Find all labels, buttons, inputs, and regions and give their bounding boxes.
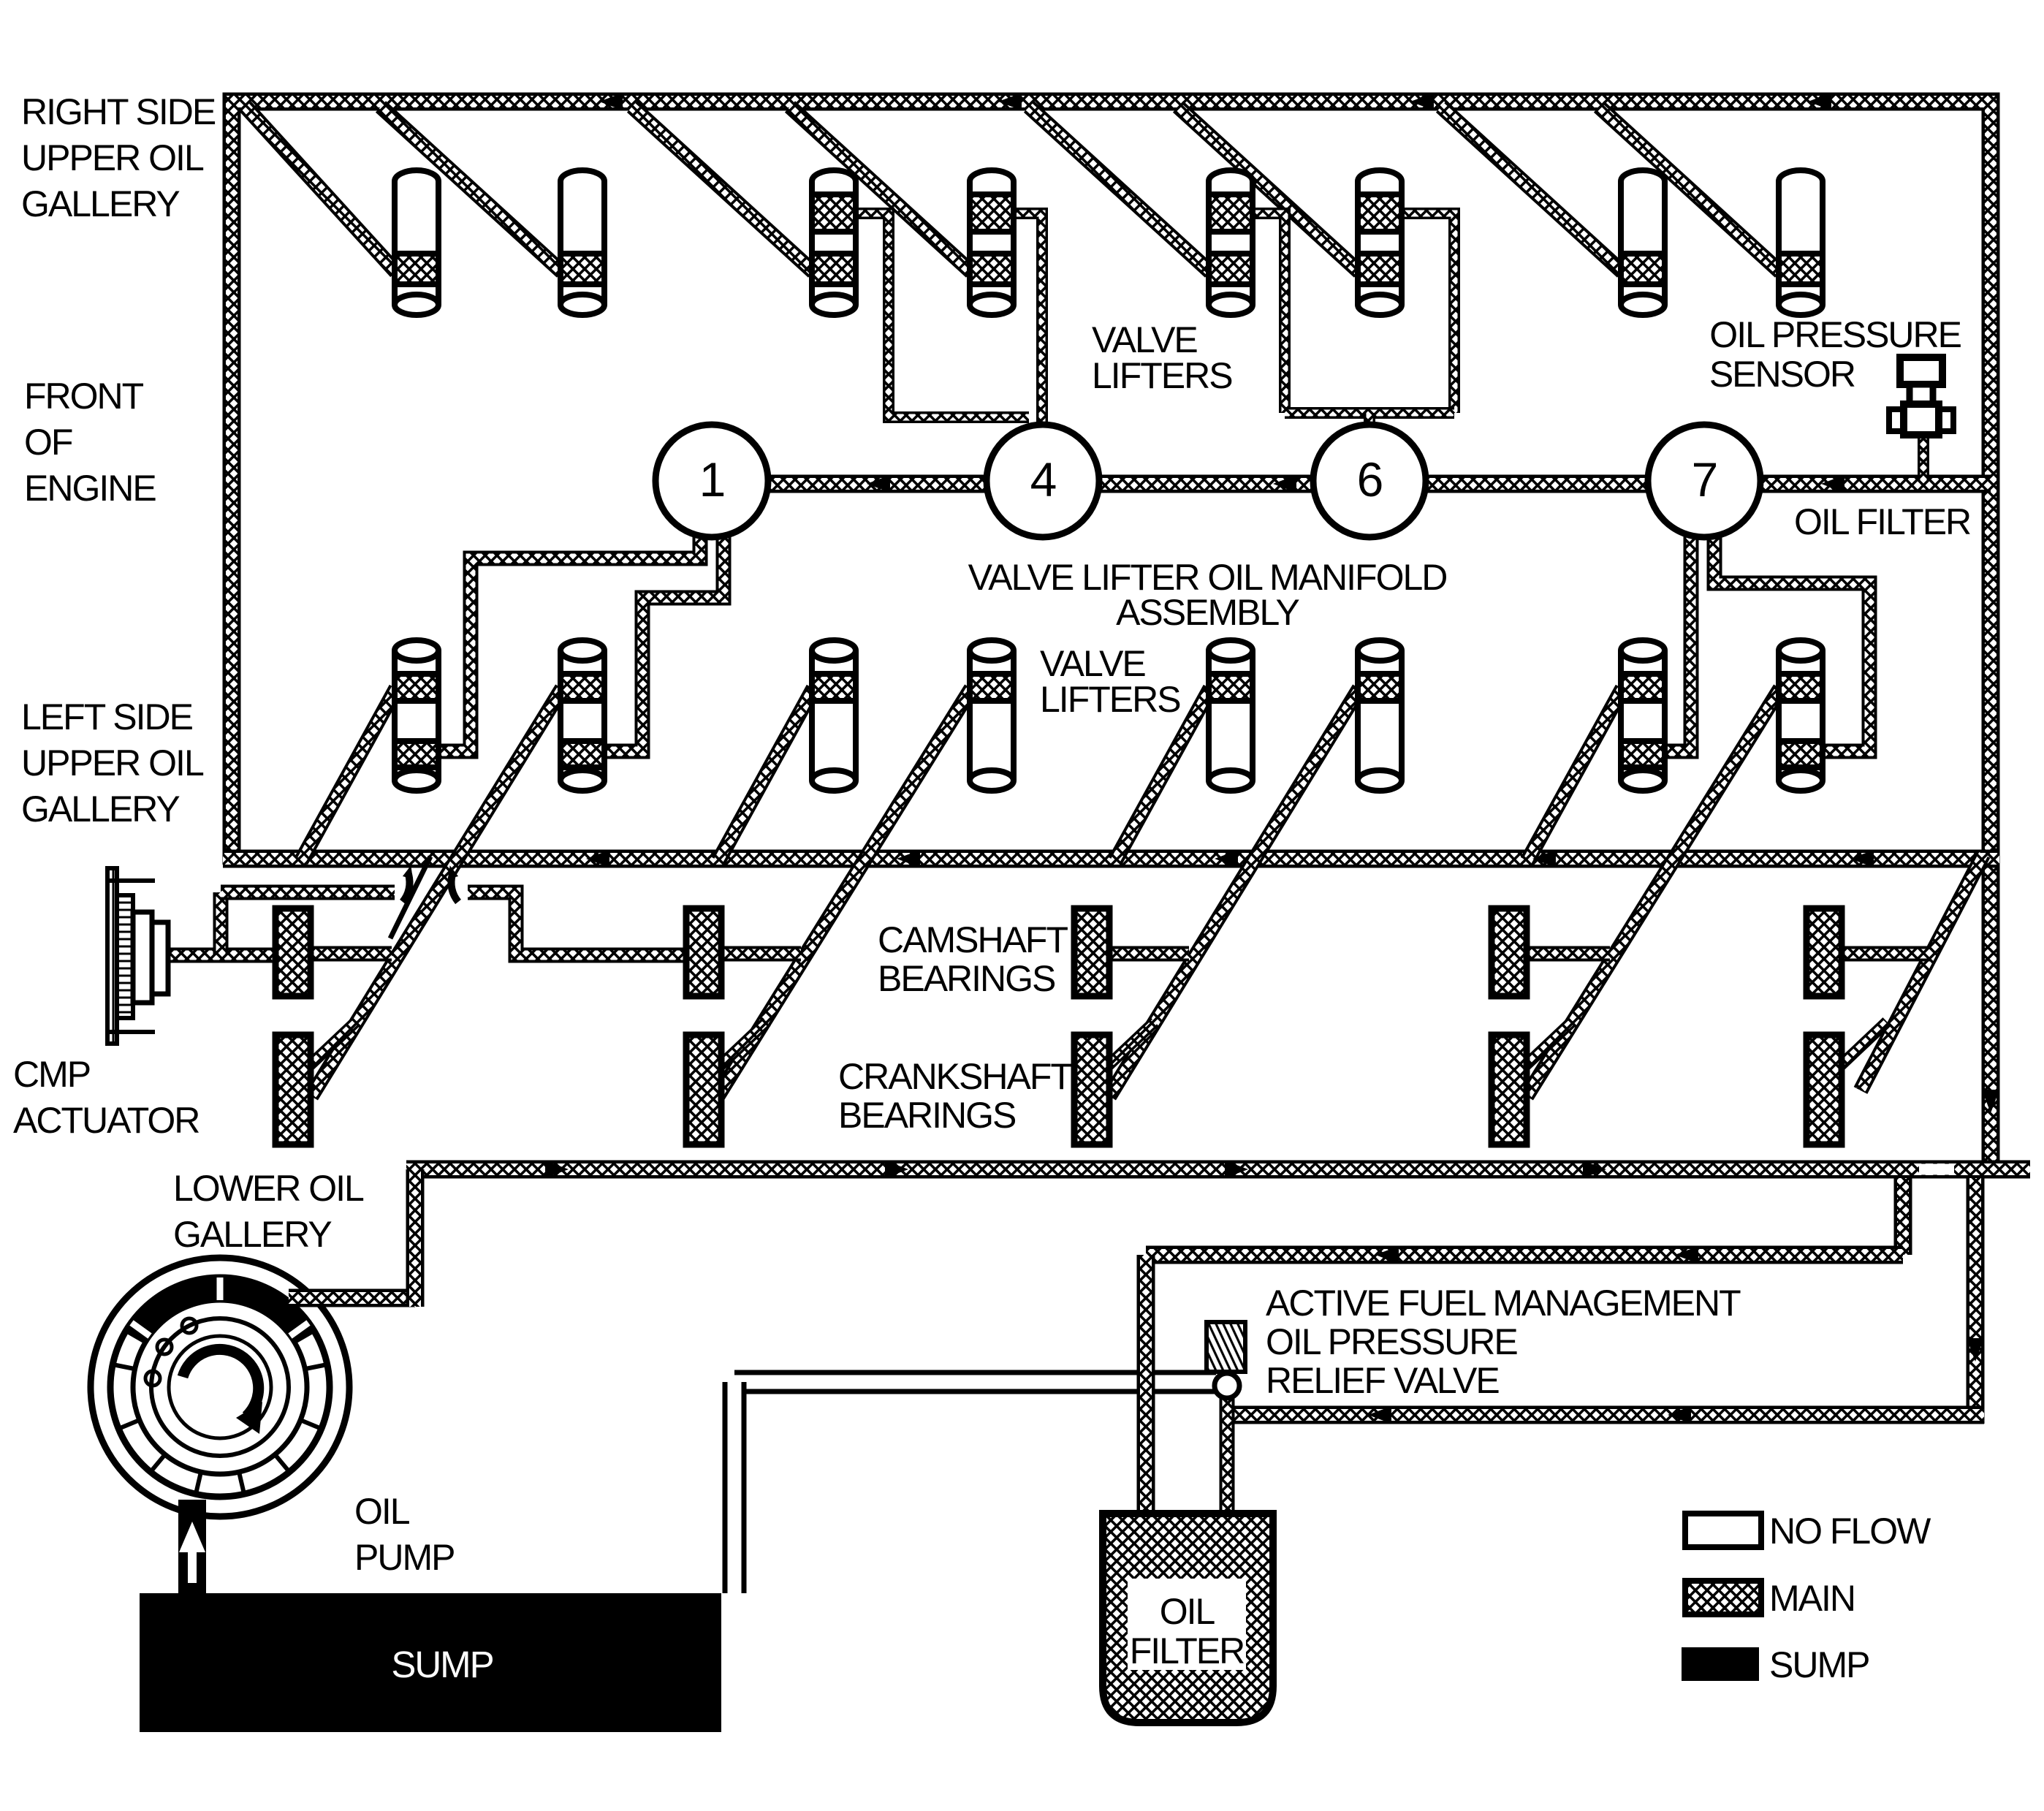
manifold port circle 1 (656, 425, 768, 537)
svg-text:CAMSHAFT: CAMSHAFT (878, 919, 1068, 960)
active fuel management oil pressure relief valve (1207, 1322, 1245, 1398)
legend no-flow swatch (1685, 1514, 1761, 1547)
svg-text:LEFT SIDE: LEFT SIDE (21, 696, 193, 737)
svg-text:PUMP: PUMP (354, 1537, 454, 1578)
no-flow drain drop to sump (723, 1382, 747, 1593)
flow arrow on box bottom gallery (1532, 850, 1556, 867)
oil pump pickup tube from sump (178, 1500, 206, 1595)
valve lifter B7 (1621, 640, 1665, 791)
oil pressure sensor (1889, 357, 1953, 435)
flow arrow on AFM top pipe (1375, 1246, 1399, 1264)
flow arrow on AFM bottom pipe (1368, 1406, 1391, 1424)
main diagonal from crankshaft bearing 2 to valve lifter B4 (718, 688, 971, 1096)
right branch pipe to camshaft bearing 2 (468, 892, 686, 955)
camshaft bearing 2 feed pipe (704, 946, 801, 962)
valve lifter T1 (395, 170, 438, 315)
flow arrow on lower gallery (1583, 1161, 1606, 1178)
valve lifter T2 (561, 170, 604, 315)
camshaft bearing 3 feed pipe (1092, 946, 1189, 962)
oil pressure sensor stem (1918, 433, 1929, 481)
AFM box bottom pipe (1227, 1406, 1984, 1424)
main diagonal from crankshaft bearing 1 to valve lifter B2 (311, 688, 562, 1096)
flow arrow on top gallery (1808, 93, 1831, 110)
valve lifter B8 (1779, 640, 1823, 791)
valve lifter T6 (1358, 170, 1402, 315)
svg-text:LOWER OIL: LOWER OIL (173, 1168, 364, 1209)
manifold port circle 6 (1313, 425, 1426, 537)
svg-text:OIL FILTER: OIL FILTER (1794, 501, 1970, 542)
flow arrow on AFM bottom pipe (1668, 1406, 1691, 1424)
lower oil gallery: pump outlet riser and horizontal run (406, 1161, 2030, 1179)
svg-text:4: 4 (1030, 452, 1056, 506)
valve lifter B3 (812, 640, 856, 791)
svg-text:6: 6 (1357, 452, 1383, 506)
camshaft bearing 4 (1492, 908, 1527, 996)
crankshaft bearing 3 (1074, 1035, 1109, 1144)
flow arrow on top gallery (998, 93, 1022, 110)
feed diagonal from right-side gallery to valve lifter T1 (246, 107, 396, 272)
sump (140, 1593, 721, 1732)
legend sump swatch (1682, 1647, 1759, 1681)
svg-text:OIL PRESSURE: OIL PRESSURE (1709, 314, 1961, 355)
flow arrow on manifold (1821, 475, 1844, 493)
flow arrow on top gallery (1410, 93, 1434, 110)
AFM box left vertical to oil filter (1137, 1255, 1155, 1520)
svg-text:NO FLOW: NO FLOW (1769, 1511, 1931, 1552)
svg-text:SUMP: SUMP (1769, 1644, 1869, 1685)
feed diagonal from right-side gallery to valve lifter T2 (381, 107, 562, 272)
svg-text:ACTUATOR: ACTUATOR (13, 1100, 199, 1141)
right vertical down to AFM box (1967, 1178, 1985, 1424)
svg-text:OIL: OIL (1160, 1591, 1215, 1632)
svg-text:1: 1 (699, 452, 725, 506)
svg-text:VALVE: VALVE (1092, 319, 1197, 360)
svg-text:RELIEF VALVE: RELIEF VALVE (1266, 1360, 1499, 1401)
arrow hook at right branch start (451, 874, 458, 902)
lifter T5 feed to manifold port 6 (1253, 213, 1285, 413)
camshaft bearing 1 (276, 908, 311, 996)
svg-text:GALLERY: GALLERY (21, 789, 180, 829)
feed diagonal from right-side gallery to valve lifter T4 (790, 107, 971, 272)
svg-text:OIL: OIL (354, 1491, 410, 1532)
svg-text:CMP: CMP (13, 1054, 90, 1095)
svg-text:UPPER OIL: UPPER OIL (21, 743, 204, 783)
feed diagonal from right-side gallery to valve lifter T5 (1029, 107, 1210, 272)
crankshaft bearing 3 outlet stub (1102, 1022, 1155, 1071)
feed diagonal from right-side gallery to valve lifter T6 (1178, 107, 1359, 272)
svg-text:GALLERY: GALLERY (21, 183, 180, 224)
feed diagonal from gallery to valve lifter B3 (718, 688, 813, 861)
svg-text:ASSEMBLY: ASSEMBLY (1116, 592, 1299, 633)
manifold port 1 branch to lifter B1 (437, 512, 700, 751)
riser from CMP line to branch pipe (213, 892, 229, 955)
svg-text:BEARINGS: BEARINGS (878, 958, 1055, 999)
valve lifter oil manifold pipe (712, 475, 1991, 493)
feed diagonal from gallery to valve lifter B7 (1527, 688, 1622, 861)
svg-text:CRANKSHAFT: CRANKSHAFT (838, 1056, 1072, 1097)
no-flow drain pipe from relief valve (734, 1370, 1216, 1394)
svg-text:LIFTERS: LIFTERS (1040, 679, 1180, 720)
CMP actuator (107, 868, 168, 1044)
oil pump (91, 1258, 349, 1516)
flow arrow on right border down (1982, 1090, 1999, 1113)
svg-text:ENGINE: ENGINE (24, 468, 156, 509)
valve lifter B6 (1358, 640, 1402, 791)
right/top/left upper oil gallery pipe frame (232, 102, 1991, 1177)
svg-text:FRONT: FRONT (24, 376, 144, 417)
no-flow white gap in lower gallery near right border (1919, 1164, 1954, 1175)
lifter T6 feed pipe down (1402, 213, 1454, 413)
manifold port 6 stub (1364, 413, 1375, 443)
svg-text:FILTER: FILTER (1130, 1630, 1245, 1671)
main diagonal from crankshaft bearing 3 to valve lifter B6 (1109, 688, 1359, 1096)
flow arrow on AFM top pipe (1675, 1246, 1698, 1264)
camshaft bearing 3 (1074, 908, 1109, 996)
AFM box top pipe (1146, 1246, 1903, 1264)
manifold port 7 branch to lifter B7 (1663, 512, 1691, 751)
feed diagonal from gallery to valve lifter B5 (1115, 688, 1210, 861)
valve lifter B2 (561, 640, 604, 791)
main diagonal from crankshaft bearing 5 to gallery corner (1861, 854, 1983, 1090)
svg-text:SENSOR: SENSOR (1709, 354, 1855, 395)
svg-text:ACTIVE FUEL MANAGEMENT: ACTIVE FUEL MANAGEMENT (1266, 1283, 1741, 1324)
manifold port 1 branch to lifter B2 (600, 512, 723, 751)
flow arrow on lower gallery (885, 1161, 908, 1178)
flow arrow on lower gallery (545, 1161, 569, 1178)
crankshaft bearing 2 (686, 1035, 721, 1144)
camshaft bearing 4 feed pipe (1509, 946, 1610, 962)
feed diagonal from right-side gallery to valve lifter T7 (1441, 107, 1622, 272)
valve lifter T8 (1779, 170, 1823, 315)
camshaft bearing 5 feed pipe (1824, 946, 1931, 962)
feed diagonal from right-side gallery to valve lifter T3 (632, 107, 813, 272)
flow arrow on box bottom gallery (1850, 850, 1874, 867)
svg-text:VALVE: VALVE (1040, 643, 1145, 684)
svg-text:SUMP: SUMP (391, 1644, 493, 1685)
lifter T3 feed to manifold port 4 (856, 213, 1029, 417)
valve lifter B1 (395, 640, 438, 791)
crankshaft bearing 5 (1806, 1035, 1842, 1144)
crankshaft bearing 1 (276, 1035, 311, 1144)
crankshaft bearing 4 (1492, 1035, 1527, 1144)
flow arrow on manifold (1273, 475, 1296, 493)
valve lifter T5 (1209, 170, 1253, 315)
camshaft bearing 1 feed pipe (293, 946, 392, 962)
thin feed line through branch junction (390, 857, 430, 938)
valve lifter B4 (970, 640, 1014, 791)
manifold port circle 7 (1648, 425, 1760, 537)
manifold port circle 4 (987, 425, 1099, 537)
feed diagonal from gallery to valve lifter B1 (301, 688, 396, 861)
lower oil gallery riser from pump (406, 1169, 425, 1307)
oil pump outlet pipe to lower gallery (289, 1289, 415, 1307)
crankshaft bearing 1 outlet stub (303, 1022, 356, 1071)
crankshaft bearing 4 outlet stub (1519, 1022, 1572, 1071)
valve lifter B5 (1209, 640, 1253, 791)
camshaft bearing 5 (1806, 908, 1842, 996)
svg-text:OF: OF (24, 422, 72, 463)
svg-text:LIFTERS: LIFTERS (1092, 355, 1232, 396)
box bottom gallery pipe (left side upper oil gallery) (223, 850, 1999, 868)
flow arrow on manifold (867, 475, 890, 493)
flow arrow on box bottom gallery (1215, 850, 1238, 867)
AFM feed riser from lower gallery (1894, 1178, 1912, 1255)
svg-text:MAIN: MAIN (1769, 1578, 1855, 1619)
flow arrow on box bottom gallery (586, 850, 609, 867)
arrow hook at left branch end (403, 874, 410, 902)
flow arrow on box bottom gallery (897, 850, 920, 867)
left branch pipe with arrow (221, 885, 395, 900)
feed diagonal from right-side gallery to valve lifter T8 (1599, 107, 1780, 272)
valve lifter T7 (1621, 170, 1665, 315)
camshaft bearing 1 feed from CMP actuator line (162, 948, 276, 963)
svg-text:RIGHT SIDE: RIGHT SIDE (21, 91, 216, 132)
valve lifter T4 (970, 170, 1014, 315)
valve lifter T3 (812, 170, 856, 315)
flow arrow on AFM right vertical (1967, 1338, 1984, 1362)
manifold port 6 collector pipe (1285, 407, 1454, 419)
oil filter canister (1103, 1514, 1273, 1723)
flow arrow on lower gallery (1225, 1161, 1248, 1178)
crankshaft bearing 2 outlet stub (714, 1022, 767, 1071)
manifold port 7 branch to lifter B8 (1714, 512, 1869, 751)
legend main swatch (1685, 1581, 1761, 1614)
relief valve outlet stem to oil filter (1220, 1393, 1235, 1520)
crankshaft bearing 5 outlet stub (1834, 1022, 1887, 1071)
camshaft bearing 2 (686, 908, 721, 996)
flow arrow on top gallery (599, 93, 623, 110)
svg-text:BEARINGS: BEARINGS (838, 1095, 1016, 1136)
lifter T4 feed to manifold port 4 (1014, 213, 1042, 443)
svg-text:7: 7 (1692, 452, 1717, 506)
main diagonal from crankshaft bearing 4 to valve lifter B8 (1527, 688, 1780, 1096)
svg-text:UPPER OIL: UPPER OIL (21, 137, 204, 178)
svg-text:OIL PRESSURE: OIL PRESSURE (1266, 1321, 1517, 1362)
svg-text:GALLERY: GALLERY (173, 1214, 332, 1255)
